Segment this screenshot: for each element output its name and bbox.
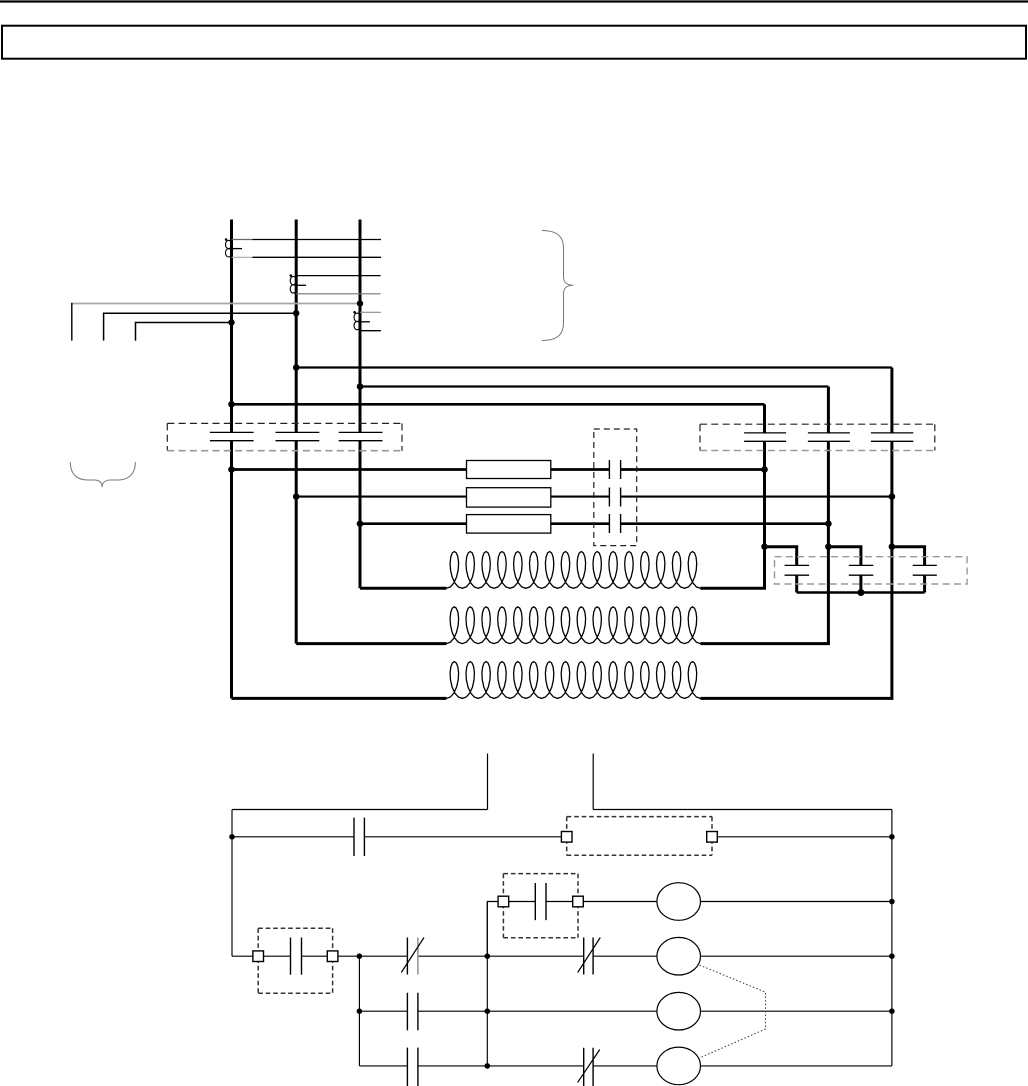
wire : control feed stub 2 — [592, 754, 594, 810]
contact : stab plates on vertical 1 — [744, 433, 786, 441]
contact : NO contact on rung B — [535, 883, 546, 920]
wire : wye common bar — [797, 591, 925, 594]
contact : NO contact on rung D — [407, 993, 418, 1031]
wire : mechanical interlock dotted linkage — [700, 965, 766, 1058]
node : under-brace grouping left leads — [70, 462, 135, 487]
wire : coil 3 left lead — [232, 697, 447, 700]
contact : stab plates on bus L2 — [276, 432, 320, 440]
resistor : OL heater box 3 — [467, 515, 551, 534]
contact : stab plates on bus L1 — [210, 432, 254, 440]
node : right drawout-stab dashed box — [700, 424, 935, 450]
contact : NC contact 1 on rung C — [406, 938, 408, 975]
contact : run contact phase 2 — [609, 488, 620, 507]
resistor : OL heater box 2 — [467, 488, 551, 507]
wire : control feed stub 1 — [487, 754, 489, 810]
node : empty title box — [2, 26, 1026, 59]
wire : coil 1 left lead — [360, 587, 446, 590]
wire : left lead to bus L1 — [136, 323, 232, 341]
wire : rung B — [509, 901, 892, 903]
contact : stab plates on vertical 3 — [871, 433, 913, 441]
wire : rung B lead from branch vertical — [487, 902, 498, 957]
wire : wye branch from vertical 2 — [828, 547, 861, 593]
wire : phase 2 run through OL heater (thin) — [296, 496, 892, 498]
coil : contactor coil circle D — [657, 992, 701, 1030]
node : terminal square C-left — [253, 951, 264, 962]
wire : top horizontal rule — [0, 0, 1028, 2]
contact : run contact phase 3 — [609, 514, 620, 533]
wire : rung C — [232, 955, 892, 957]
contact : wye stab plates 2 — [849, 565, 874, 575]
wire : feeder from L3 to right vertical 2 — [360, 385, 828, 387]
wire : phase 3 run through OL heater — [360, 522, 828, 525]
inductor : winding T1 — [446, 552, 700, 589]
node : left drawout-stab dashed box — [167, 423, 402, 450]
wire : coil 2 left lead — [296, 642, 446, 645]
coil : contactor coil circle B — [657, 883, 701, 921]
wire : rung A — [232, 836, 892, 838]
wire : rung D — [359, 1010, 892, 1012]
node : dashed device box on rung C — [258, 928, 332, 993]
contact : wye stab plates 1 — [785, 565, 810, 575]
current transformer CT — [225, 238, 228, 241]
wire : feeder from L1 to right vertical 1 — [232, 403, 765, 406]
wire : feeder from L2 to right vertical 3 — [296, 366, 892, 368]
node : wye contact dashed box (gray) — [775, 557, 968, 584]
node : dashed device box on rung A — [567, 817, 712, 856]
contact : NO contact on rung A — [354, 818, 364, 856]
wire : phase 1 run through OL heater — [232, 468, 765, 471]
node : terminal square A-right — [707, 832, 718, 843]
wire : phase bus L3 (vertical) — [359, 220, 362, 589]
wire : wye branch from vertical 3 — [892, 547, 925, 593]
node : dashed device box on rung B — [503, 874, 578, 938]
node : right curly brace grouping CT taps — [542, 231, 574, 341]
wire : phase bus L2 (vertical) — [295, 220, 298, 644]
node : terminal square B-left — [498, 896, 509, 907]
node : terminal square C-right — [327, 951, 338, 962]
wire : branch vertical x=487 — [486, 902, 488, 1066]
coil : contactor coil circle C — [657, 937, 701, 975]
contact : stab plates on bus L3 — [339, 432, 383, 440]
node : terminal square A-left — [561, 832, 572, 843]
wire : branch vertical x=359 — [358, 956, 360, 1066]
wire : left lead to bus L2 — [104, 313, 297, 340]
wire : phase bus L1 (vertical) — [230, 220, 233, 699]
wire : left control rail — [231, 810, 233, 957]
wire : right control rail — [891, 810, 893, 1066]
wire : rung E — [359, 1065, 892, 1067]
contact : NO contact in dashed box C — [291, 938, 302, 975]
contact : NC contact 2 on rung C — [584, 938, 593, 975]
node : terminal square B-right — [573, 896, 584, 907]
contact : NC contact on rung E — [584, 1048, 593, 1086]
wire : left lead to bus L3 (gray) — [72, 303, 360, 305]
wire : wye branch from vertical 1 — [765, 547, 797, 593]
inductor : winding T3 — [446, 662, 700, 699]
node : contactor dashed box (run contacts) — [594, 429, 637, 546]
wire : top rail left segment — [232, 809, 488, 811]
wire : top rail right segment — [593, 809, 892, 811]
contact : wye stab plates 3 — [913, 565, 937, 575]
coil : contactor coil circle E — [657, 1047, 701, 1085]
current transformer CT — [290, 274, 293, 277]
contact : NO contact on rung E — [407, 1048, 418, 1086]
current transformer CT — [353, 311, 356, 314]
inductor : winding T2 — [446, 607, 700, 644]
resistor : OL heater box 1 — [467, 461, 551, 479]
contact : run contact phase 1 — [609, 460, 620, 479]
contact : stab plates on vertical 2 — [808, 433, 850, 441]
